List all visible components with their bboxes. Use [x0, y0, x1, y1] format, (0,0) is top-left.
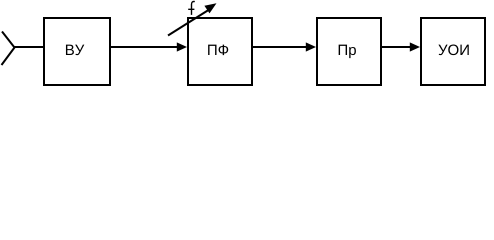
- tuning arrowhead: [204, 3, 216, 13]
- label ВУ: [66, 45, 84, 55]
- label ПФ: [208, 45, 228, 55]
- wire ВУ to ПФ: [110, 46, 179, 48]
- label УОИ: [438, 45, 468, 56]
- label Пр: [339, 45, 356, 58]
- tuning arrow shaft over ПФ: [168, 10, 209, 36]
- wire ПФ to Пр: [252, 46, 308, 48]
- arrowhead into ПФ: [177, 42, 187, 51]
- block УОИ: [421, 18, 485, 85]
- wire Пр to УОИ: [381, 46, 412, 48]
- block Пр: [317, 18, 381, 85]
- antenna: [2, 32, 15, 66]
- block ПФ: [188, 18, 252, 85]
- arrowhead into Пр: [306, 42, 316, 51]
- arrowhead into УОИ: [410, 42, 420, 51]
- wire antenna to ВУ: [14, 46, 45, 48]
- block ВУ: [44, 18, 110, 85]
- label f: [188, 2, 195, 15]
